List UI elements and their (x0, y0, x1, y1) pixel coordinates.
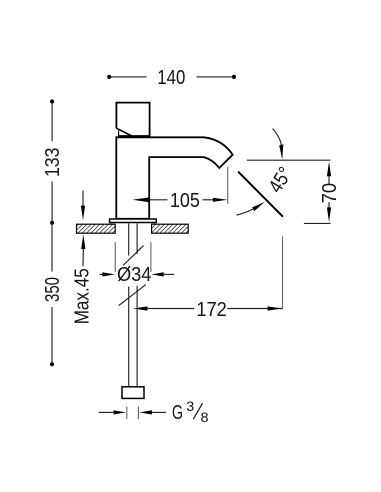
down arrowhead (327, 207, 331, 222)
right arrowhead (268, 306, 283, 310)
dimension diameter 34 (100, 242, 175, 286)
svg-text:350: 350 (42, 277, 64, 302)
45 degree stream line (238, 172, 283, 217)
svg-text:105: 105 (170, 190, 200, 212)
left end dot (107, 75, 111, 79)
dimension 133 (42, 99, 64, 224)
dimension 350 (42, 223, 64, 367)
left arrowhead (102, 272, 115, 276)
left extension line (114, 242, 116, 272)
dim line left segment (147, 308, 194, 310)
left arrowhead (132, 197, 149, 202)
pipe break line 1 (123, 246, 143, 266)
right end dot (232, 75, 236, 79)
spout tip extension line (227, 167, 229, 204)
right extension tick (137, 407, 139, 420)
dim line lower segment (51, 182, 53, 223)
dimension 140 (107, 67, 236, 89)
right extension line (150, 242, 152, 272)
shared end dot (50, 221, 54, 225)
pipe end connector (122, 387, 144, 399)
dimension 45 degrees (237, 129, 298, 217)
up arrowhead (81, 234, 85, 249)
base plate (110, 219, 157, 223)
svg-text:3: 3 (186, 398, 194, 414)
dim line lower segment (51, 307, 53, 364)
dim line right segment (227, 308, 282, 310)
left arrowhead at pipe axis (133, 306, 148, 310)
up arrowhead (327, 162, 331, 177)
svg-text:8: 8 (201, 409, 209, 425)
right arrowhead (151, 272, 164, 276)
supply pipe upper segment (129, 223, 137, 255)
lower leader line (82, 249, 84, 267)
down arrowhead (81, 206, 85, 221)
svg-text:140: 140 (157, 67, 185, 89)
upper arc arrow curve (273, 129, 282, 147)
upper arc arrowhead (279, 144, 283, 159)
dimension 172 (133, 236, 283, 320)
lower arc arrow curve (237, 209, 254, 215)
svg-text:172: 172 (196, 299, 227, 321)
countertop right block (152, 224, 189, 233)
svg-text:70: 70 (319, 183, 341, 204)
fraction slash (193, 403, 202, 419)
left extension tick (126, 407, 128, 420)
pipe break line 2 (119, 285, 146, 306)
right arrowhead (139, 410, 152, 414)
left arrow tail (99, 411, 113, 413)
faucet handle (116, 103, 149, 136)
dim line upper segment (51, 102, 53, 142)
top end dot (50, 99, 54, 103)
right arrow tail (162, 273, 175, 275)
left arrowhead (113, 410, 126, 414)
lower reference line (304, 222, 331, 224)
right arrowhead (213, 198, 228, 202)
supply pipe lower segment (129, 286, 137, 387)
svg-text:133: 133 (42, 148, 64, 178)
right arrow tail (151, 411, 166, 413)
left arrow tail (100, 273, 105, 275)
handle lever notch (118, 131, 120, 137)
upper leader line (82, 190, 84, 206)
bottom end dot (50, 362, 54, 366)
dim line right segment (203, 199, 214, 201)
dim line right segment (197, 76, 234, 78)
dim line lower segment (328, 202, 330, 208)
faucet body and spout outline (116, 137, 232, 219)
dim line left segment (149, 199, 167, 201)
lower arc arrowhead (252, 202, 264, 211)
svg-text:G: G (172, 402, 183, 424)
upper reference line (247, 159, 331, 161)
svg-text:Ø34: Ø34 (117, 264, 152, 286)
countertop left block (77, 224, 116, 233)
dimension 70 (247, 160, 341, 223)
dimension G 3/8 (99, 398, 209, 425)
dim line upper segment (51, 223, 53, 272)
dim line upper segment (328, 176, 330, 184)
dimension 105 (132, 167, 227, 212)
handle lever seam (116, 128, 131, 136)
dim line left segment (109, 76, 146, 78)
dimension Max.45 (71, 190, 93, 324)
stream end extension line (282, 236, 284, 309)
svg-text:Max.45: Max.45 (71, 268, 93, 324)
